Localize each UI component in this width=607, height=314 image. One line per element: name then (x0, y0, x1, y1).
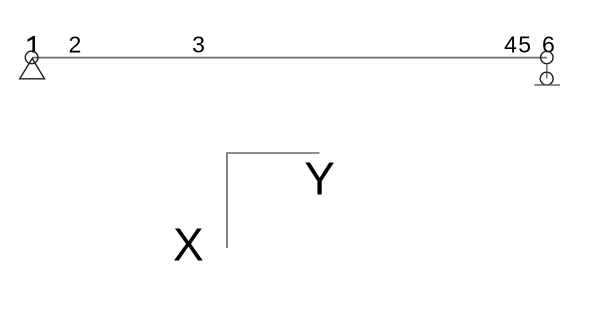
svg-text:Y: Y (304, 153, 335, 205)
roller circle (540, 72, 553, 85)
pin support triangle at node 1 (20, 59, 45, 79)
node 1 label (28, 36, 36, 53)
beam element (wire) from node 1 to node 6 (32, 57, 547, 59)
roller link wire (546, 64, 548, 79)
svg-text:6: 6 (542, 32, 555, 58)
node 1 circle (25, 51, 38, 64)
node 6 circle (541, 51, 553, 63)
axis corner wire (227, 153, 320, 248)
svg-text:2: 2 (69, 32, 82, 58)
svg-text:3: 3 (192, 32, 205, 58)
ground line (534, 84, 560, 86)
svg-text:X: X (173, 218, 204, 270)
svg-text:4: 4 (504, 32, 517, 58)
svg-text:5: 5 (518, 32, 531, 58)
